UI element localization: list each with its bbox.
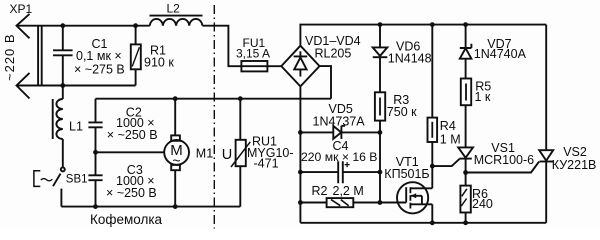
wire VT1 source to bottom rail [431, 204, 433, 223]
svg-text:1 к: 1 к [475, 90, 491, 104]
svg-text:3,15 A: 3,15 A [236, 47, 270, 61]
svg-text:L1: L1 [69, 120, 83, 134]
connector XP1 bottom pin arrow [17, 73, 30, 99]
wire bottom-left rail [17, 85, 136, 87]
thyristor VS2 [545, 25, 547, 151]
motor M1 [164, 140, 189, 165]
capacitor C1 [53, 26, 73, 86]
svg-text:R2: R2 [312, 184, 328, 198]
wire VT1 drain to R4 column [431, 142, 433, 188]
resistor R6 [460, 186, 470, 213]
zener diode VD7 [465, 25, 467, 48]
svg-text:M1: M1 [196, 147, 213, 161]
svg-text:240: 240 [472, 197, 493, 211]
switch SB1 [61, 167, 65, 171]
wire C-column to motor [96, 151, 165, 153]
svg-text:220 мк × 16 В: 220 мк × 16 В [301, 150, 377, 164]
wire VS1 cathode to VS2 gate [466, 162, 539, 173]
resistor R3 [375, 92, 385, 120]
wire bridge top to right top rail [300, 25, 546, 46]
svg-text:1N4148: 1N4148 [388, 51, 432, 65]
Кофемолка label [90, 212, 163, 227]
MOSFET VT1 [397, 182, 428, 213]
svg-text:~: ~ [172, 153, 180, 169]
connector XP1 label [10, 2, 33, 16]
svg-text:SB1: SB1 [66, 174, 88, 186]
wire top-left rail [17, 25, 150, 27]
resistor R5 [461, 79, 471, 106]
wire motor rail [96, 98, 332, 100]
svg-text:L2: L2 [167, 2, 181, 16]
inductor L2 [150, 15, 203, 17]
svg-text:U: U [222, 147, 232, 163]
svg-text:910 к: 910 к [144, 56, 174, 70]
svg-text:КП501Б: КП501Б [384, 167, 429, 181]
varistor RU1 [239, 99, 241, 207]
capacitor C4 [300, 161, 380, 183]
svg-text:R4: R4 [440, 119, 456, 133]
wire bottom-right rail [300, 222, 546, 224]
wire bridge right vertex to motor rail [320, 66, 332, 99]
svg-text:2,2 М: 2,2 М [333, 184, 364, 198]
svg-text:750 к: 750 к [387, 105, 417, 119]
connector XP1 body bars [38, 25, 42, 86]
svg-text:-471: -471 [254, 156, 279, 170]
resistor R1 [131, 44, 141, 69]
diode VD6 [379, 25, 381, 48]
svg-text:Кофемолка: Кофемолка [90, 212, 163, 227]
svg-text:× ~250 В: × ~250 В [106, 186, 157, 200]
fuse FU1 [241, 61, 267, 71]
zener diode VD5 [300, 131, 333, 133]
svg-text:0,1 мк ×: 0,1 мк × [76, 49, 122, 63]
inductor L1 [62, 86, 64, 100]
svg-text:× ~275 В: × ~275 В [74, 63, 125, 77]
bridge rectifier VD1-VD4 [281, 46, 319, 87]
wire bridge bottom column [299, 86, 301, 222]
svg-text:КУ221В: КУ221В [552, 158, 597, 172]
wire L2 to fuse elbow [202, 26, 241, 66]
capacitor C3 [88, 152, 102, 206]
resistor R2 [300, 202, 406, 204]
svg-text:× ~250 В: × ~250 В [107, 128, 158, 142]
svg-text:MCR100-6: MCR100-6 [474, 153, 534, 167]
enclosure boundary dash-dot [213, 5, 215, 229]
wire R4 to VS1 gate junction [432, 159, 459, 166]
svg-text:1N4737A: 1N4737A [313, 114, 366, 128]
capacitor C2 [88, 99, 102, 153]
svg-text:1 М: 1 М [440, 133, 461, 147]
svg-text:~220 В: ~220 В [2, 33, 17, 81]
resistor R4 [431, 25, 433, 118]
thyristor VS1 [458, 147, 473, 157]
node ~220V label [2, 33, 17, 81]
wire bottom motor rail [61, 206, 240, 208]
svg-text:RL205: RL205 [315, 46, 352, 60]
svg-text:VS2: VS2 [563, 145, 587, 159]
connector XP1 top pin arrow [17, 14, 30, 38]
svg-text:1N4740A: 1N4740A [474, 47, 527, 61]
